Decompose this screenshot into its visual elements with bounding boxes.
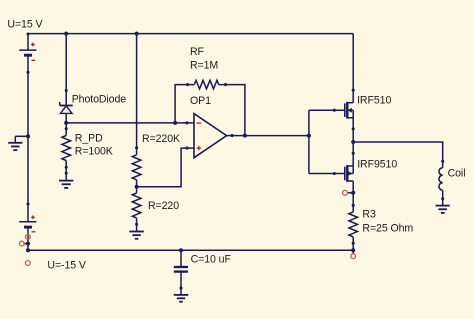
wire bottom -15V rail [28, 249, 353, 251]
svg-text:IRF510: IRF510 [357, 94, 391, 106]
wire node A to op-amp inverting input [66, 122, 194, 124]
wire feedback left leg [175, 85, 194, 123]
wire photodiode to node A [65, 113, 67, 135]
node open circle left of minus node [19, 241, 24, 246]
pin R_PD bottom terminal [65, 166, 68, 169]
pin op-amp non-inverting input terminal [185, 147, 188, 150]
node IRF9510 drain junction [351, 191, 355, 195]
wire divider branch from rail crossing input wire [136, 34, 138, 155]
ground left [8, 143, 22, 150]
node gate bus junction [307, 134, 311, 138]
resistor R3 R=25 Ohm [349, 212, 358, 237]
wire rail corner to battery V1 [27, 34, 29, 51]
node rail-photodiode junction [64, 32, 68, 36]
node open circle below R3 rail junction [351, 254, 356, 259]
resistor R=220K [132, 155, 141, 180]
wire R_PD to ground [65, 161, 67, 181]
pin capacitor ground terminal [179, 287, 182, 290]
pin R3 top terminal [352, 204, 355, 207]
resistor RF R=1M [194, 80, 218, 89]
pin op-amp output terminal [230, 134, 233, 137]
node open circle at IRF9510 drain [343, 190, 348, 195]
pin IRF9510 source terminal [352, 152, 355, 155]
svg-text:OP1: OP1 [190, 95, 211, 107]
node battery V2 minus junction [26, 242, 30, 246]
ground below capacitor [174, 295, 189, 302]
transistor Q1 IRF510 [345, 102, 353, 119]
wire battery V1 to battery V2 [27, 55, 29, 222]
wire output node to coil [353, 142, 443, 168]
transistor Q2 IRF9510 [345, 165, 353, 182]
pin R3 bottom terminal [352, 242, 355, 245]
pin battery V1 plus terminal [26, 32, 29, 35]
pin RF left terminal [186, 83, 189, 86]
wire coil to ground [442, 190, 444, 205]
svg-text:R=220: R=220 [148, 200, 179, 212]
svg-text:IRF9510: IRF9510 [357, 158, 397, 170]
node rail-capacitor junction [179, 248, 183, 252]
op-amp OP1 [194, 114, 227, 158]
svg-text:R=25 Ohm: R=25 Ohm [362, 223, 413, 235]
pin battery V2 plus terminal [26, 202, 29, 205]
wire IRF510 drain from rail [352, 34, 354, 103]
node output-coil junction [351, 140, 355, 144]
node A photodiode junction [64, 121, 68, 125]
wire capacitor branch from rail [180, 250, 182, 266]
pin coil bottom terminal [441, 197, 444, 200]
wire gate lead of IRF510 [309, 109, 344, 111]
node B divider junction [135, 185, 139, 189]
svg-text:U=-15 V: U=-15 V [47, 260, 86, 272]
pin IRF510 drain terminal [352, 89, 355, 92]
wire top +15V rail [28, 33, 353, 35]
svg-text:R=1M: R=1M [190, 60, 218, 72]
svg-text:R3: R3 [362, 209, 376, 221]
svg-text:Coil: Coil [448, 167, 466, 179]
node open circle below rail corner [25, 261, 30, 266]
node rail-divider junction [135, 32, 139, 36]
pin R220K top terminal [135, 146, 138, 149]
wire tee to left ground [15, 136, 28, 142]
inductor Coil [439, 168, 443, 191]
pin IRF9510 gate terminal [333, 172, 336, 175]
battery V1 U=15V [19, 43, 36, 61]
wire battery V2 to bottom rail corner [27, 227, 29, 250]
resistor R_PD R=100K [62, 136, 71, 161]
wire capacitor to ground [180, 272, 182, 295]
pin ground R_PD terminal [65, 172, 68, 175]
wire R220K to node B [136, 180, 138, 193]
pin op-amp inverting input terminal [185, 121, 188, 124]
svg-text:RF: RF [190, 46, 205, 58]
wire IRF510 source to output node [352, 118, 354, 166]
wire gate bus vertical [308, 110, 310, 173]
wire feedback right leg [219, 85, 245, 136]
svg-text:R=220K: R=220K [142, 133, 180, 145]
wire photodiode branch from rail [65, 34, 67, 106]
node feedback-input junction [173, 121, 177, 125]
ground below R220 [129, 232, 144, 239]
pin IRF510 gate terminal [333, 109, 336, 112]
svg-text:PhotoDiode: PhotoDiode [72, 93, 127, 105]
wire open stub at drain node [347, 192, 353, 194]
capacitor C=10uF [174, 267, 188, 272]
ground below coil [436, 206, 450, 213]
svg-text:C=10 uF: C=10 uF [191, 253, 232, 265]
wire IRF9510 drain down to R3 [352, 181, 354, 212]
node open circle below battery V2 [25, 235, 30, 240]
node R3 bottom rail junction [351, 248, 355, 252]
pin coil top terminal [441, 160, 444, 163]
svg-text:R_PD: R_PD [75, 133, 103, 145]
node feedback-output junction [243, 134, 247, 138]
photodiode D1 [60, 102, 73, 114]
node left ground tee junction [26, 134, 30, 138]
pin R_PD top terminal [65, 127, 68, 130]
pin IRF510 source terminal [352, 127, 355, 130]
battery V2 U=-15V [19, 215, 36, 231]
node bottom rail corner junction [26, 248, 30, 252]
wire open stub left of battery V2 minus node [24, 243, 29, 245]
wire node B to op-amp non-inverting input [137, 148, 194, 187]
pin photodiode cathode terminal [65, 89, 68, 92]
wire gate lead of IRF9510 [309, 173, 344, 175]
wire op-amp output line [227, 135, 309, 137]
wire R3 to bottom rail [352, 237, 354, 254]
ground below R_PD [59, 181, 73, 188]
pin RF right terminal [224, 83, 227, 86]
resistor R=220 [132, 193, 141, 218]
wire R220 to ground [136, 218, 138, 231]
svg-text:R=100K: R=100K [75, 146, 113, 158]
pin battery V1 minus terminal [26, 71, 29, 74]
pin R220 bottom terminal [135, 223, 138, 226]
svg-text:U=15 V: U=15 V [7, 18, 43, 30]
